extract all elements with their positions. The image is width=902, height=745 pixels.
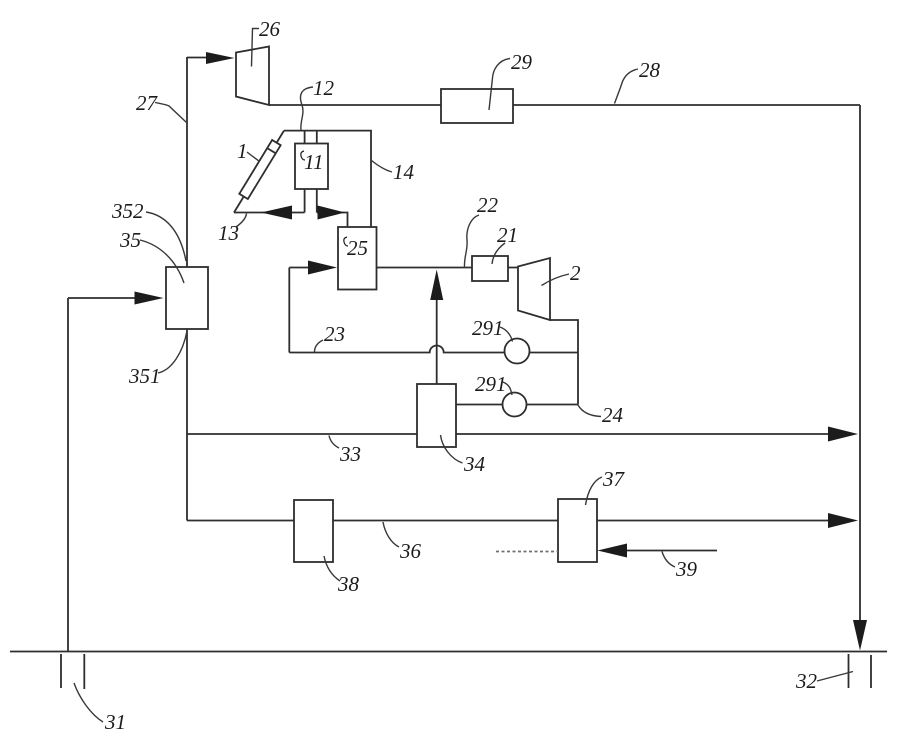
svg-text:22: 22: [477, 193, 499, 217]
leader 291 lower: [503, 382, 512, 395]
svg-text:13: 13: [218, 221, 239, 245]
svg-text:31: 31: [104, 710, 126, 734]
leader 22: [464, 215, 479, 267]
leader 2: [542, 274, 570, 286]
svg-text:23: 23: [324, 322, 345, 346]
svg-text:24: 24: [602, 403, 624, 427]
svg-text:351: 351: [128, 364, 161, 388]
svg-text:12: 12: [313, 76, 335, 100]
wire left vertical to pipeline: [67, 298, 69, 652]
leader 29: [489, 59, 510, 111]
turbine 26: [236, 47, 269, 106]
leader 23: [315, 340, 324, 352]
svg-text:28: 28: [639, 58, 661, 82]
wire stub box 11 bottom left: [304, 189, 306, 213]
heat exchanger box 29: [441, 89, 513, 123]
label 25: [344, 236, 368, 260]
wire stub line14 to box 11 top left: [304, 131, 306, 144]
wire 23 horizontal with hop: [289, 346, 578, 353]
svg-text:352: 352: [111, 199, 144, 223]
wire 39: [627, 550, 717, 552]
wire 28 right vertical: [859, 105, 861, 621]
arrow at right end of wire 33: [828, 427, 858, 442]
arrow down onto bottom pipeline 32: [853, 620, 867, 651]
leader 28: [615, 69, 639, 104]
leader 351: [158, 331, 187, 373]
turbine 2: [518, 258, 550, 320]
arrow at right end of wire 36: [828, 513, 858, 528]
label 11: [301, 150, 324, 174]
svg-text:2: 2: [570, 261, 581, 285]
pump 291 lower circle: [503, 393, 527, 417]
wire stub line14 to box 11 top right: [316, 131, 318, 144]
wire stub box 11 bottom right: [316, 189, 318, 213]
leader 33: [329, 436, 339, 449]
wire 24 turbine outlet: [550, 320, 578, 405]
syringe injector 1 body: [239, 140, 280, 199]
svg-text:37: 37: [602, 467, 626, 491]
leader 31: [74, 683, 103, 722]
box 38: [294, 500, 333, 562]
reactor box 25: [338, 227, 377, 290]
leader 24: [578, 405, 601, 417]
wire into box 25 from left: [289, 267, 308, 269]
wire 13 right arm to box 25: [317, 213, 348, 228]
wire 27 left vertical main line: [186, 57, 188, 521]
svg-text:33: 33: [339, 442, 361, 466]
arrow pointing right above box 25: [318, 206, 346, 220]
arrow into box 35: [135, 292, 164, 305]
arrow 39 into box 37: [598, 544, 628, 558]
tick 31 left: [60, 654, 62, 688]
leader 13: [236, 214, 247, 228]
svg-text:11: 11: [304, 150, 323, 174]
box 11: [295, 144, 328, 190]
svg-text:36: 36: [399, 539, 422, 563]
leader 26: [252, 29, 260, 67]
wire top feed to turbine 26: [187, 57, 207, 59]
leader 32: [817, 672, 853, 682]
pump 291 upper circle: [505, 339, 530, 364]
svg-text:32: 32: [795, 669, 818, 693]
leader 34: [441, 435, 463, 463]
wire 23 down leg: [288, 268, 290, 353]
leader 38: [324, 556, 340, 581]
tick 31 right: [83, 654, 85, 689]
svg-text:14: 14: [393, 160, 415, 184]
svg-text:38: 38: [337, 572, 360, 596]
svg-text:291: 291: [472, 316, 504, 340]
leader 1: [247, 152, 260, 162]
svg-text:21: 21: [497, 223, 518, 247]
dashed stub left of box 37: [496, 551, 558, 553]
leader 27: [155, 103, 187, 123]
leader 291 upper: [500, 327, 513, 342]
wire 33: [187, 433, 829, 435]
arrow up onto wire 22: [430, 270, 443, 301]
wire 22 from box 25 to turbine 2: [377, 267, 519, 269]
box 37: [558, 499, 597, 562]
leader 14: [372, 161, 393, 173]
leader 36: [383, 522, 399, 547]
box 35: [166, 267, 208, 329]
leader 12: [300, 87, 313, 130]
svg-text:26: 26: [259, 17, 281, 41]
arrow 13 pointing left: [261, 206, 292, 220]
tick 32 right: [870, 655, 872, 688]
pipeline 31 32 bottom line: [10, 651, 887, 653]
leader 21: [492, 243, 505, 264]
arrow into turbine 26: [206, 52, 235, 64]
svg-text:35: 35: [119, 228, 141, 252]
svg-text:291: 291: [475, 372, 507, 396]
valve box 21: [472, 256, 508, 281]
wire to pump 291 upper: [456, 404, 578, 406]
leader 37: [586, 477, 603, 505]
svg-text:25: 25: [347, 236, 368, 260]
tick 32 left: [848, 654, 850, 688]
arrow into box 25: [308, 261, 337, 275]
svg-text:27: 27: [136, 91, 159, 115]
svg-text:29: 29: [511, 50, 533, 74]
svg-text:1: 1: [237, 139, 248, 163]
svg-text:34: 34: [463, 452, 486, 476]
wire 14 loop: [284, 131, 371, 227]
wire feed into box 35: [68, 297, 135, 299]
wire 36: [187, 520, 829, 522]
wire 13 left arm: [234, 212, 305, 214]
syringe injector 1 axis line: [234, 131, 284, 213]
vertical riser from box 34: [436, 300, 438, 384]
svg-text:39: 39: [675, 557, 698, 581]
separator box 34: [417, 384, 456, 447]
leader 352: [146, 212, 186, 261]
leader 35: [140, 240, 184, 283]
wire 12 from turbine 26 to right: [269, 104, 860, 106]
leader 39: [662, 552, 675, 568]
